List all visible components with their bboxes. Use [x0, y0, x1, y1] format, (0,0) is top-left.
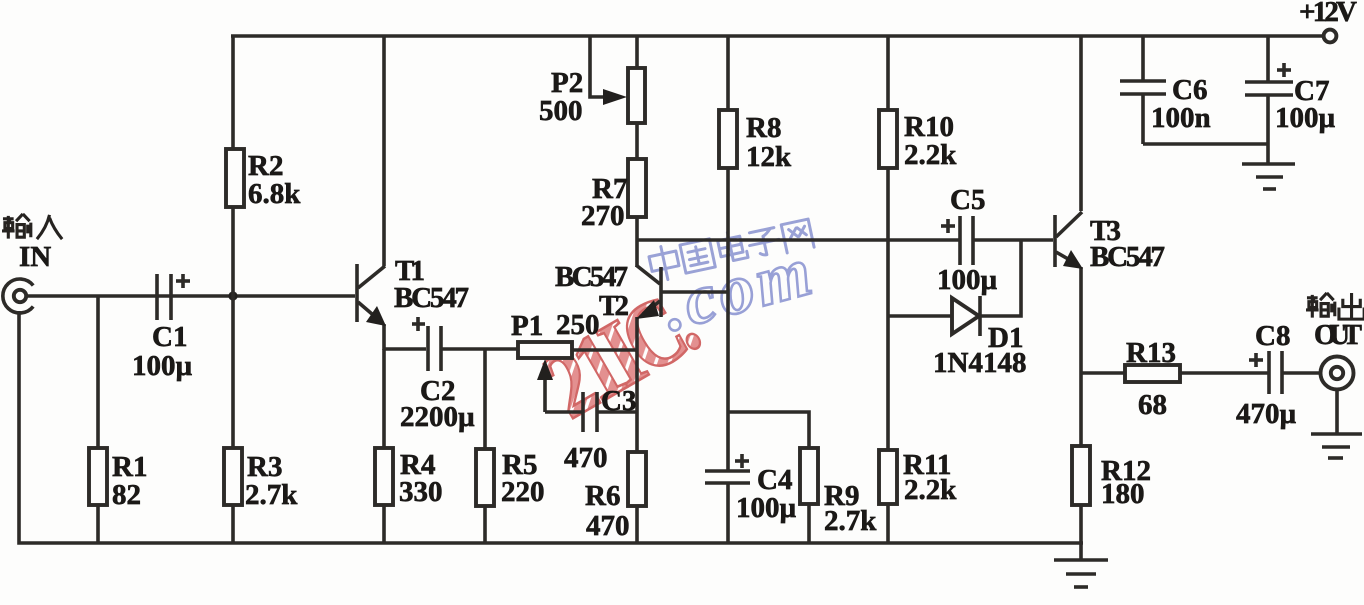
svg-text:100n: 100n: [1151, 102, 1211, 134]
svg-text:R8: R8: [746, 112, 781, 144]
wire R1 column: [96, 296, 100, 448]
wire C6 to C7 bottom link: [1143, 142, 1268, 146]
capacitor C4 (horizontal plates, polarized): [705, 454, 750, 483]
wire R9 to ground rail: [807, 504, 811, 543]
svg-text:IN: IN: [19, 241, 51, 273]
capacitor C6 (horizontal plates): [1120, 81, 1166, 94]
wire R1 to ground rail: [96, 505, 100, 543]
ground under output terminal: [1311, 389, 1362, 458]
svg-text:C5: C5: [950, 184, 985, 216]
svg-text:330: 330: [399, 476, 443, 508]
wire bottom ground rail: [19, 311, 1083, 543]
wire wiper to C3 left: [545, 410, 583, 414]
svg-text:82: 82: [112, 479, 141, 511]
potentiometer P2 body: [628, 68, 645, 123]
wire P1 right to T2 emitter column: [572, 348, 638, 352]
svg-text:BC547: BC547: [394, 282, 469, 314]
svg-text:2.7k: 2.7k: [245, 479, 298, 511]
transistor T3: [1055, 212, 1083, 269]
svg-text:250: 250: [556, 309, 600, 341]
resistor R1: [89, 448, 107, 505]
wire C3 right to T2 emitter column: [597, 410, 638, 414]
node junction dot at C1/R2/R3: [228, 291, 237, 300]
ground at bottom rail right end: [1054, 543, 1108, 587]
svg-text:180: 180: [1101, 478, 1145, 510]
wire T2 collector branch to C5: [637, 238, 959, 242]
wire R8 column top: [726, 36, 730, 110]
wire C4 node to R9: [728, 412, 809, 448]
potentiometer P2 wiper arrow: [603, 89, 627, 105]
svg-text:2.7k: 2.7k: [824, 505, 877, 537]
resistor R8: [719, 110, 737, 168]
wire C4 bottom to ground rail: [726, 483, 730, 543]
svg-text:470: 470: [564, 442, 608, 474]
svg-text:100µ: 100µ: [132, 350, 193, 382]
wire top +12V rail: [231, 34, 1324, 38]
wire C6 top lead: [1141, 36, 1145, 80]
wire R4 column: [382, 349, 386, 448]
wire R5 to ground rail: [483, 506, 487, 543]
wire R10 bottom through D1 node to R11: [886, 168, 890, 450]
capacitor C8: [1249, 351, 1282, 394]
svg-text:2.2k: 2.2k: [904, 474, 957, 506]
wire C6 bottom lead: [1141, 94, 1145, 144]
wire T3 emitter node to R13: [1081, 371, 1125, 375]
capacitor C2: [412, 317, 441, 371]
svg-text:2200µ: 2200µ: [400, 401, 475, 433]
svg-text:C1: C1: [152, 321, 187, 353]
wire C7 top lead: [1266, 36, 1270, 81]
svg-text:100µ: 100µ: [1275, 102, 1336, 134]
svg-text:BC547: BC547: [1090, 241, 1165, 273]
svg-text:270: 270: [581, 200, 625, 232]
capacitor C3: [583, 392, 597, 432]
svg-text:500: 500: [539, 95, 583, 127]
wire emitter node to C2: [383, 347, 426, 351]
wire T1 emitter down: [382, 324, 386, 350]
svg-text:.com: .com: [654, 233, 819, 346]
wire R2 column top: [231, 36, 235, 149]
svg-text:470: 470: [586, 510, 630, 542]
input terminal IN: [3, 279, 33, 313]
wire R6 to ground rail: [635, 506, 639, 543]
transistor T2 (mirrored): [636, 265, 661, 319]
wire R12 to ground: [1079, 505, 1083, 543]
wire R3 column: [231, 296, 235, 448]
resistor R11: [879, 450, 897, 504]
wire P1 wiper down: [543, 376, 547, 412]
potentiometer P1 body: [518, 342, 572, 358]
output terminal OUT: [1321, 357, 1354, 390]
svg-text:+12V: +12V: [1299, 0, 1357, 28]
wire P2 wiper from top rail: [590, 36, 605, 97]
wire T3 collector to top rail: [1079, 36, 1083, 211]
wire input to T1 base: [26, 294, 355, 298]
svg-text:T2: T2: [599, 290, 629, 322]
wire R7 to T2 collector: [635, 217, 639, 267]
wire R10 column top: [886, 36, 890, 110]
resistor R13 (horizontal): [1125, 365, 1180, 382]
resistor R5: [476, 449, 494, 506]
wire R3 to ground rail: [231, 505, 235, 543]
svg-text:OUT: OUT: [1314, 319, 1362, 351]
resistor R4: [375, 448, 393, 505]
resistor R9: [800, 448, 818, 504]
node 输出 (output chinese): [1306, 293, 1364, 319]
wire C8 to output terminal: [1282, 371, 1321, 375]
svg-text:100µ: 100µ: [937, 264, 998, 296]
resistor R2: [226, 149, 244, 207]
wire T2 emitter column down to R6: [635, 317, 639, 452]
+12V supply terminal: [1324, 30, 1337, 43]
wire C2 to P1 left: [442, 347, 518, 351]
wire C5 right to T3 base: [974, 238, 1053, 242]
wire R13 to C8: [1180, 371, 1269, 375]
wire D1 anode from R10 column: [888, 314, 952, 318]
wire C7 bottom lead to ground: [1266, 95, 1270, 163]
svg-text:1N4148: 1N4148: [933, 347, 1026, 379]
wire R8 bottom through T2 base node to C4: [726, 168, 730, 471]
resistor R12: [1072, 446, 1090, 505]
svg-text:220: 220: [501, 476, 545, 508]
wire T2 base to R8 column: [662, 290, 728, 294]
svg-text:12k: 12k: [746, 141, 792, 173]
wire T3 emitter down to R12: [1079, 267, 1083, 446]
resistor R10: [879, 110, 897, 168]
svg-text:P1: P1: [511, 310, 543, 342]
wire R4 to ground rail: [382, 505, 386, 543]
svg-text:6.8k: 6.8k: [248, 178, 301, 210]
capacitor C7 (horizontal plates, polarized): [1245, 63, 1293, 95]
node 输入 (input chinese): [2, 214, 62, 239]
potentiometer P1 wiper arrow: [537, 359, 553, 380]
wire T1 collector to top rail: [382, 36, 386, 266]
transistor T1: [357, 264, 386, 326]
wire D1 cathode to C5 output node: [981, 240, 1021, 316]
svg-text:C3: C3: [601, 385, 636, 417]
diode D1 1N4148: [952, 296, 980, 336]
resistor R7: [628, 159, 646, 217]
capacitor C5: [941, 216, 973, 265]
svg-text:2.2k: 2.2k: [904, 139, 957, 171]
resistor R3: [224, 448, 242, 505]
svg-text:100µ: 100µ: [736, 492, 797, 524]
wire R11 to ground rail: [886, 504, 890, 543]
capacitor C1: [157, 274, 190, 320]
wire P2 top lead: [635, 36, 639, 68]
svg-text:R6: R6: [585, 480, 620, 512]
svg-text:R13: R13: [1126, 337, 1176, 369]
resistor R6: [628, 452, 646, 506]
ground under C7: [1242, 164, 1295, 189]
wire R5 column: [483, 349, 487, 449]
wire R2 bottom to node: [231, 207, 235, 296]
svg-text:C8: C8: [1255, 320, 1290, 352]
svg-text:68: 68: [1138, 389, 1167, 421]
svg-text:BC547: BC547: [555, 261, 628, 293]
svg-text:470µ: 470µ: [1236, 398, 1297, 430]
watermark chinese 中国电子网 blue outline: [647, 215, 814, 282]
wire P2 to R7: [635, 123, 639, 159]
